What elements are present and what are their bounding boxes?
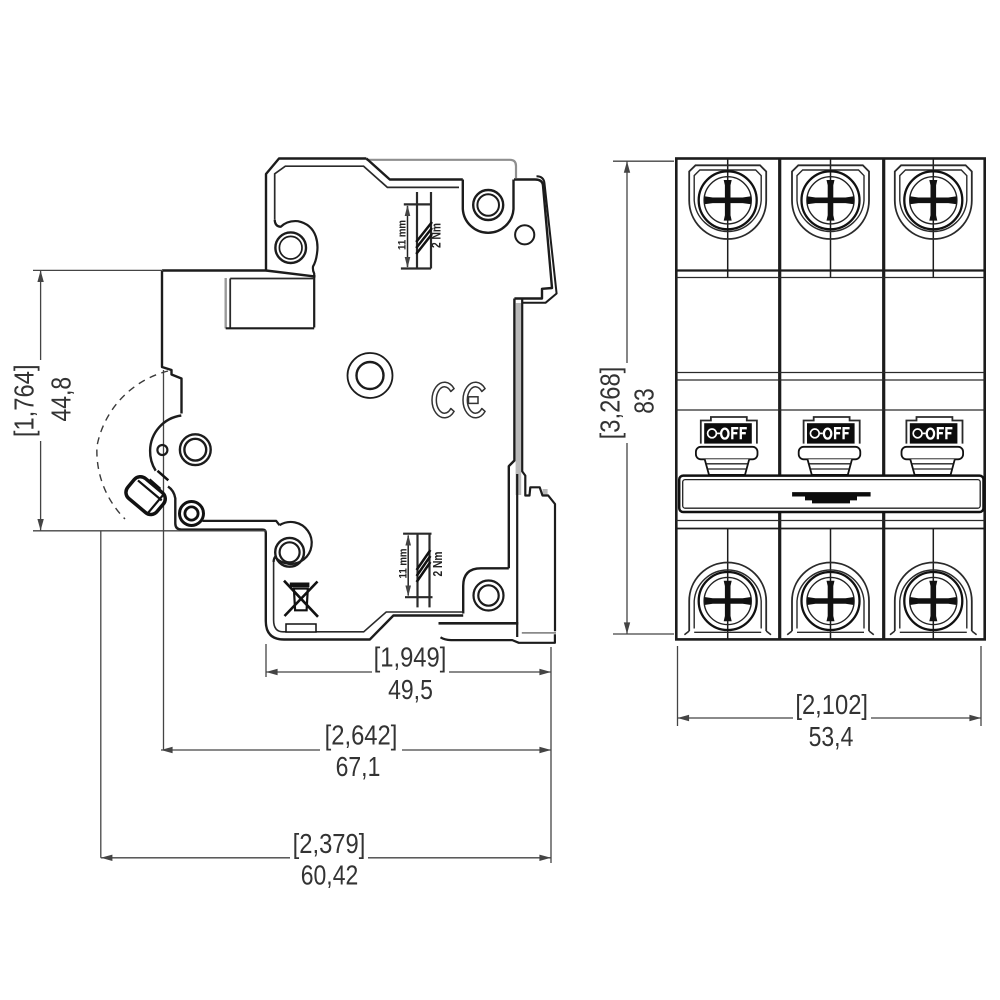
svg-text:44,8: 44,8 (45, 377, 76, 422)
DIN rail recess rectangle (230, 278, 314, 280)
top terminal recess inner (694, 170, 761, 232)
svg-text:60,42: 60,42 (301, 860, 359, 891)
bottom terminal recess inner (694, 570, 761, 629)
body outline (676, 159, 984, 640)
pivot screw (180, 434, 211, 465)
bottom terminal screw (699, 572, 757, 630)
DIN clip slot shading (516, 303, 522, 495)
horizontal face lines (676, 269, 984, 271)
small pin hole (157, 445, 167, 455)
case back edge (509, 299, 515, 569)
pole 3 (890, 159, 977, 640)
bottom inner wall line (274, 562, 464, 632)
pole divider 2 (882, 159, 885, 640)
left edge with steps (162, 271, 182, 414)
pole 2 (787, 159, 874, 640)
OFF window (704, 423, 752, 443)
svg-text:83: 83 (628, 388, 659, 414)
toggle handle (123, 473, 169, 517)
svg-text:[2,102]: [2,102] (795, 689, 868, 720)
svg-text:[1,764]: [1,764] (8, 364, 39, 437)
top terminal pocket U (463, 180, 514, 233)
centerline top (727, 159, 729, 278)
top terminal recess outer (689, 165, 766, 239)
toggle neck (705, 459, 750, 475)
extension line x266 (265, 644, 267, 677)
svg-text:2 Nm: 2 Nm (429, 223, 443, 248)
top terminal screw (473, 190, 503, 220)
top rear edge gray (366, 160, 516, 178)
svg-text:67,1: 67,1 (336, 751, 381, 782)
handle pivot boss arc (150, 416, 181, 471)
svg-text:[2,642]: [2,642] (325, 720, 398, 751)
dim 49.5 line (266, 671, 551, 673)
svg-text:11 mm: 11 mm (396, 220, 408, 250)
toggle cushion (696, 447, 758, 460)
extension line x163 (163, 370, 165, 750)
pole 1 (684, 159, 771, 640)
top terminal screw (699, 171, 757, 229)
pole divider 1 (778, 159, 781, 640)
lower-left ledge (203, 521, 280, 525)
case outline top and right (162, 159, 366, 271)
lower-left terminal screw (275, 538, 304, 567)
under-ledge platform edge (441, 634, 555, 643)
top-left screw (275, 232, 306, 263)
lower left edge and corner (168, 487, 266, 534)
lower-left screw (180, 502, 204, 526)
dim 67.1 line (161, 749, 551, 751)
dim 53.4 line (678, 717, 982, 719)
torque symbol top (396, 192, 443, 269)
lower-left screw boss (274, 522, 312, 564)
dim 60.42 line (101, 857, 551, 859)
bottom outline (266, 533, 463, 640)
DIN clip foot line (522, 632, 556, 634)
bottom terminal screw (474, 581, 504, 611)
CE mark E (463, 382, 485, 418)
svg-text:[1,949]: [1,949] (374, 642, 447, 673)
toggle tie bar (679, 476, 983, 512)
DIN clip latch (516, 474, 518, 637)
tie bar center notch (792, 492, 871, 503)
top step inner line (275, 166, 459, 220)
svg-text:2 Nm: 2 Nm (431, 552, 445, 577)
extension line right x551 (550, 647, 552, 863)
svg-text:[3,268]: [3,268] (594, 367, 625, 440)
svg-text:49,5: 49,5 (388, 674, 433, 705)
toggle collar (701, 417, 757, 444)
dim 44.8 extension bottom (33, 530, 266, 532)
SIDE VIEW GROUP (97, 159, 557, 858)
crossed waste-bin symbol (290, 583, 310, 588)
small hole top right (515, 225, 534, 244)
centerline bottom (727, 529, 729, 640)
top step outer line (366, 159, 462, 180)
svg-text:[2,379]: [2,379] (293, 828, 366, 859)
dim 44.8 line (40, 270, 42, 530)
extension line x100 (100, 531, 102, 858)
svg-text:53,4: 53,4 (809, 721, 854, 752)
svg-text:11 mm: 11 mm (397, 548, 409, 578)
DIMENSIONS GROUP (8, 161, 981, 890)
bottom terminal block (463, 568, 509, 613)
dim 53.4 extensions (677, 646, 679, 726)
FRONT VIEW GROUP (676, 159, 984, 640)
torque symbol bottom (397, 534, 444, 608)
dim 83 extensions (613, 160, 674, 162)
dim 44.8 extension top (33, 269, 163, 271)
handle swing dashed arc (97, 371, 168, 519)
bottom rear ledge (439, 622, 519, 625)
bottom terminal recess outer (689, 563, 766, 632)
handle neck (150, 471, 169, 489)
top-left terminal lobe (275, 220, 318, 328)
lobe bottom slant (266, 271, 316, 277)
dim 83 line (626, 161, 628, 634)
DIN clip front edge (522, 299, 555, 631)
right edge outer wall (522, 176, 556, 302)
mounting slot (286, 624, 316, 632)
center screw (348, 353, 393, 398)
top right corner (514, 180, 552, 299)
CE mark C (432, 382, 454, 418)
